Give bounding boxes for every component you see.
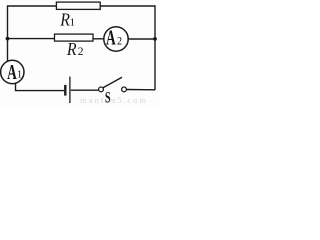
- svg-text:A: A: [7, 60, 17, 84]
- wire A1 to battery (bottom left): [16, 83, 65, 90]
- switch lever: [103, 77, 122, 88]
- wire R2 to A2: [93, 38, 104, 40]
- wire top-left segment: [8, 6, 57, 62]
- svg-text:manfen5.com: manfen5.com: [80, 95, 148, 105]
- svg-text:R: R: [66, 39, 77, 59]
- battery cell: [64, 85, 66, 96]
- ammeter A2: [104, 27, 128, 51]
- wire switch to right: [126, 89, 155, 91]
- node junction right: [153, 37, 157, 41]
- switch S: [99, 87, 104, 92]
- wire A2 to right: [128, 38, 155, 40]
- svg-text:1: 1: [17, 70, 22, 81]
- resistor R1: [56, 2, 100, 9]
- svg-text:2: 2: [78, 46, 84, 58]
- resistor R2: [55, 34, 94, 41]
- node junction left: [6, 37, 10, 41]
- ammeter A1: [1, 60, 24, 83]
- wire middle branch left: [8, 38, 55, 40]
- svg-text:S: S: [105, 88, 111, 106]
- svg-text:2: 2: [117, 35, 122, 48]
- svg-text:A: A: [106, 25, 116, 49]
- wire battery to switch: [71, 89, 99, 91]
- svg-text:1: 1: [70, 16, 76, 28]
- wire top-right segment: [100, 6, 155, 90]
